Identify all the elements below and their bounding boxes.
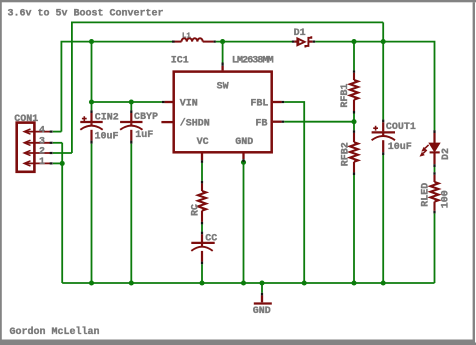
wire VIN row bbox=[92, 101, 162, 103]
wire RFB2 bottom bbox=[353, 175, 355, 283]
inductor L1 bbox=[175, 38, 214, 41]
svg-text:4: 4 bbox=[39, 125, 45, 136]
diode D1 (schottky) bbox=[294, 36, 313, 47]
svg-text:LM2638MM: LM2638MM bbox=[232, 55, 274, 66]
junction rail CC bbox=[199, 280, 204, 285]
junction node VIN/CBYP bbox=[129, 99, 134, 104]
svg-text:10uF: 10uF bbox=[388, 142, 412, 153]
op-amp U1 IC box LM2638 bbox=[174, 72, 272, 153]
capacitor COUT1 bbox=[372, 122, 395, 152]
svg-text:RFB1: RFB1 bbox=[340, 84, 351, 108]
wire GND symbol stub bbox=[261, 283, 263, 293]
svg-text:VC: VC bbox=[197, 137, 209, 148]
svg-text:/SHDN: /SHDN bbox=[180, 118, 210, 130]
svg-text:GND: GND bbox=[235, 137, 253, 148]
pin connection tips bbox=[50, 42, 435, 296]
resistor RC bbox=[198, 183, 206, 222]
wire VBAT riser and run to L1 bbox=[61, 42, 174, 132]
wire IC GND drop bbox=[243, 162, 245, 283]
IC1 pin FB bbox=[273, 121, 282, 123]
wire CIN2 riser bbox=[91, 42, 93, 111]
wire CBYP drop bbox=[130, 102, 132, 110]
wire D1 cathode to LED column bbox=[315, 42, 434, 131]
wire L1 to D1 bbox=[216, 41, 292, 43]
junction rail CIN2 bbox=[89, 280, 94, 285]
junction rail CBYP bbox=[129, 280, 134, 285]
svg-text:L1: L1 bbox=[182, 32, 192, 40]
wire pin3 riser to ground rail bbox=[61, 143, 63, 283]
wire ground rail bbox=[62, 282, 434, 284]
junction node FB bbox=[351, 119, 356, 124]
wire RFB1 to FB node bbox=[353, 114, 355, 131]
svg-text:2: 2 bbox=[39, 147, 45, 158]
svg-text:Gordon McLellan: Gordon McLellan bbox=[10, 326, 100, 338]
svg-text:RLED: RLED bbox=[421, 183, 432, 207]
junction node SW/inductor bbox=[220, 39, 225, 44]
LED D2 bbox=[420, 133, 440, 164]
wire CBYP bottom bbox=[130, 144, 132, 283]
IC1 pin /SHDN bbox=[161, 121, 172, 123]
svg-text:VIN: VIN bbox=[180, 98, 198, 109]
connector CON1 bbox=[17, 123, 35, 172]
wire pin2 stub bbox=[53, 152, 72, 154]
svg-text:FB: FB bbox=[255, 119, 267, 130]
junction rail IC GND bbox=[241, 280, 246, 285]
svg-text:1: 1 bbox=[39, 157, 45, 168]
IC1 pin SW bbox=[221, 66, 223, 71]
svg-text:SW: SW bbox=[217, 81, 229, 92]
wire RLED bottom bbox=[434, 213, 436, 283]
wire RC to CC bbox=[201, 224, 203, 231]
wire pin3 stub bbox=[53, 142, 62, 144]
svg-text:FBL: FBL bbox=[250, 98, 268, 109]
resistor RLED bbox=[431, 175, 439, 211]
wire CIN2 bottom bbox=[91, 144, 93, 283]
wire output drop to COUT1 bbox=[382, 22, 384, 119]
wire SW drop bbox=[222, 42, 224, 63]
svg-text:3.6v to 5v Boost Converter: 3.6v to 5v Boost Converter bbox=[8, 9, 164, 20]
wire RFB1 top bbox=[353, 42, 355, 71]
resistor RFB2 bbox=[350, 133, 358, 173]
svg-text:COUT1: COUT1 bbox=[386, 122, 416, 133]
junction node IC GND pin bbox=[241, 160, 246, 165]
junction node CIN2 top bbox=[89, 39, 94, 44]
capacitor CC bbox=[191, 234, 214, 261]
junction node RFB1 top bbox=[351, 39, 356, 44]
wire FB row bbox=[284, 121, 354, 123]
junction node pin1 bbox=[60, 161, 65, 166]
IC1 pin VIN bbox=[165, 101, 173, 103]
svg-text:CBYP: CBYP bbox=[134, 112, 158, 123]
svg-text:CON1: CON1 bbox=[14, 114, 38, 125]
connector CON1 pin 3 bbox=[24, 140, 50, 145]
wire net +5V top run bbox=[72, 22, 383, 153]
IC1 pin GND bbox=[242, 154, 244, 160]
wire COUT1 bottom bbox=[382, 155, 384, 283]
svg-text:RC: RC bbox=[191, 204, 202, 216]
svg-text:D1: D1 bbox=[294, 28, 306, 39]
junction rail COUT1 bbox=[381, 280, 386, 285]
connector CON1 pin 4 bbox=[24, 129, 50, 134]
resistor RFB1 bbox=[350, 73, 358, 111]
svg-text:CC: CC bbox=[205, 233, 217, 244]
junction node output/COUT bbox=[381, 39, 386, 44]
wire pin1 stub bbox=[53, 162, 62, 164]
wire CC bottom bbox=[201, 264, 203, 283]
wire pin4 stub bbox=[53, 131, 61, 133]
svg-text:10uF: 10uF bbox=[95, 132, 119, 143]
svg-text:RFB2: RFB2 bbox=[340, 142, 351, 166]
junction rail GND symbol bbox=[259, 280, 264, 285]
svg-text:GND: GND bbox=[253, 306, 271, 317]
wire VC to RC bbox=[201, 163, 203, 181]
svg-text:CIN2: CIN2 bbox=[95, 112, 119, 123]
connector CON1 pin 1 bbox=[24, 161, 50, 166]
junction rail RFB2 bbox=[351, 280, 356, 285]
junction node VIN/CIN2 bbox=[89, 99, 94, 104]
connector CON1 pin 2 bbox=[24, 150, 50, 155]
svg-text:1uF: 1uF bbox=[135, 130, 153, 141]
junction rail FBL bbox=[302, 280, 307, 285]
wire D2 to RLED bbox=[434, 167, 436, 172]
IC1 pin VC bbox=[201, 154, 203, 161]
svg-text:D2: D2 bbox=[441, 148, 452, 160]
wire FBL to rail bbox=[284, 102, 304, 283]
ground symbol bbox=[254, 295, 272, 303]
svg-text:IC1: IC1 bbox=[171, 55, 189, 66]
capacitor CIN2 bbox=[80, 113, 102, 141]
svg-text:100: 100 bbox=[441, 190, 452, 208]
capacitor CBYP bbox=[120, 113, 142, 141]
IC1 pin FBL bbox=[273, 101, 282, 103]
